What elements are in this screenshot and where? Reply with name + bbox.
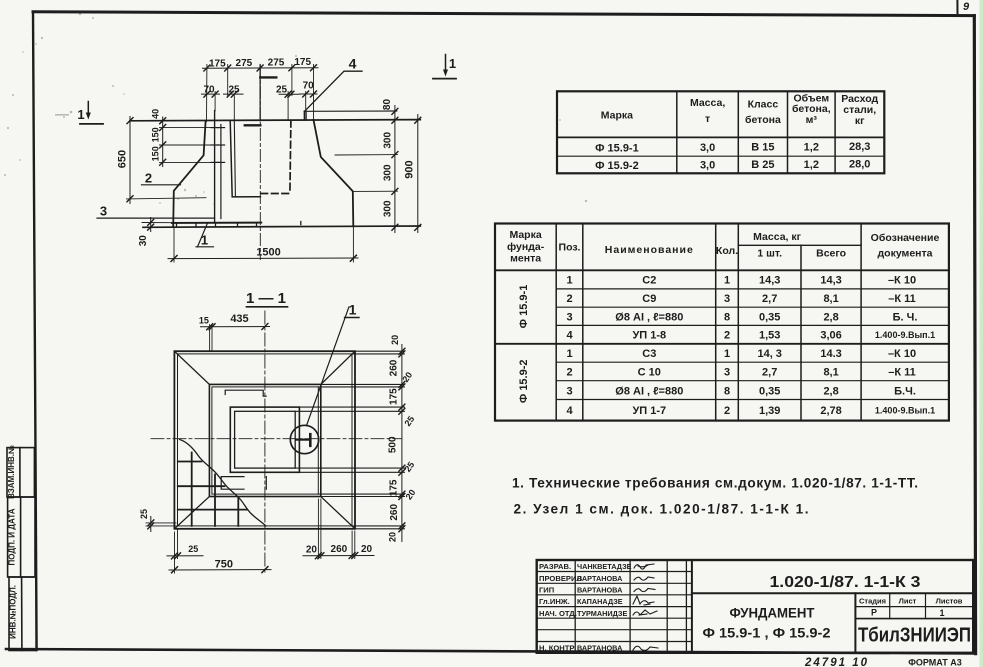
svg-text:8: 8 xyxy=(724,385,730,397)
svg-text:Лист: Лист xyxy=(899,597,917,606)
sidebar stamp box ПОДП. И ДАТА xyxy=(8,497,35,577)
svg-text:3,0: 3,0 xyxy=(700,142,715,154)
mesh C9 band bottom of socket xyxy=(221,477,244,490)
rebar anchor tick marks xyxy=(211,128,225,163)
detail node 1 circle xyxy=(290,425,318,453)
svg-text:Р: Р xyxy=(871,608,877,618)
svg-text:435: 435 xyxy=(230,313,248,325)
svg-text:3,06: 3,06 xyxy=(820,330,841,342)
svg-text:ПРОВЕРИЛ: ПРОВЕРИЛ xyxy=(539,574,582,583)
svg-text:ВЗАМ.ИНВ.№: ВЗАМ.ИНВ.№ xyxy=(7,445,16,499)
svg-text:С2: С2 xyxy=(642,275,656,287)
svg-text:0,35: 0,35 xyxy=(759,311,780,323)
svg-text:1: 1 xyxy=(566,275,572,287)
detail node 1 embedded part symbol xyxy=(297,439,310,441)
svg-text:РАЗРАВ.: РАЗРАВ. xyxy=(539,562,571,571)
title block signature labels xyxy=(539,562,582,653)
svg-text:275: 275 xyxy=(236,58,253,69)
svg-text:150: 150 xyxy=(151,146,161,161)
svg-text:УП 1-8: УП 1-8 xyxy=(632,330,666,342)
svg-text:Масса, кг: Масса, кг xyxy=(753,231,801,243)
svg-text:ТбилЗНИИЭП: ТбилЗНИИЭП xyxy=(858,625,971,647)
plan vertical centerline xyxy=(264,311,266,573)
rebar bars pos.2 in section xyxy=(214,111,216,223)
svg-text:1,39: 1,39 xyxy=(759,405,780,417)
svg-text:Листов: Листов xyxy=(936,597,963,606)
svg-text:70: 70 xyxy=(303,80,315,91)
svg-text:–К 11: –К 11 xyxy=(888,367,916,379)
svg-text:3: 3 xyxy=(566,311,572,323)
mesh grid pos.1 plan xyxy=(178,453,247,526)
svg-text:300: 300 xyxy=(383,200,394,217)
svg-text:С 10: С 10 xyxy=(638,367,661,379)
svg-text:Ф 15.9-1: Ф 15.9-1 xyxy=(518,285,530,329)
svg-text:мента: мента xyxy=(510,253,541,265)
svg-text:25: 25 xyxy=(188,544,198,554)
svg-text:ВАРТАНОВА: ВАРТАНОВА xyxy=(577,574,623,583)
mesh C2 edge inner square xyxy=(178,354,353,526)
svg-text:ПОДП. И ДАТА: ПОДП. И ДАТА xyxy=(7,508,16,565)
mesh C9 edge inner square xyxy=(212,387,318,494)
svg-text:2,8: 2,8 xyxy=(823,311,838,323)
svg-text:Кол.: Кол. xyxy=(716,245,738,257)
mesh C9 band top of socket xyxy=(225,390,266,396)
svg-text:1.400-9.Вып.1: 1.400-9.Вып.1 xyxy=(875,406,935,416)
svg-text:1.020-1/87. 1-1-К 3: 1.020-1/87. 1-1-К 3 xyxy=(770,574,921,591)
svg-text:1,2: 1,2 xyxy=(804,142,819,154)
svg-text:1,2: 1,2 xyxy=(804,159,819,171)
svg-text:260: 260 xyxy=(389,359,400,376)
svg-text:2: 2 xyxy=(566,367,572,379)
svg-text:В 15: В 15 xyxy=(751,142,774,154)
dim 25 left xyxy=(224,93,244,95)
svg-text:25: 25 xyxy=(139,509,149,519)
svg-text:С9: С9 xyxy=(642,293,656,305)
svg-text:8: 8 xyxy=(724,311,730,323)
svg-text:1: 1 xyxy=(724,348,730,360)
svg-text:24791 10: 24791 10 xyxy=(804,657,869,667)
embedded item УП top stub (pos.4) xyxy=(304,110,396,112)
svg-text:КАПАНАДЗЕ: КАПАНАДЗЕ xyxy=(577,597,623,606)
outer base square plan xyxy=(174,351,355,529)
table 2 rows group 1 xyxy=(566,275,917,342)
svg-text:документа: документа xyxy=(878,248,933,260)
leader node 1 xyxy=(307,307,349,426)
svg-text:Ф 15.9-2: Ф 15.9-2 xyxy=(518,359,530,403)
svg-text:кг: кг xyxy=(855,115,865,127)
svg-text:175: 175 xyxy=(389,388,400,405)
section mark 1 left xyxy=(77,102,103,124)
svg-text:3: 3 xyxy=(724,367,730,379)
svg-text:Стадия: Стадия xyxy=(859,597,886,606)
sidebar stamp box ИНВ.№ПОДЛ. xyxy=(9,577,36,651)
svg-text:175: 175 xyxy=(294,57,311,68)
svg-text:фунда-: фунда- xyxy=(507,241,545,253)
svg-text:40: 40 xyxy=(151,109,161,119)
svg-text:Ф 15.9-1: Ф 15.9-1 xyxy=(595,143,639,155)
svg-text:1: 1 xyxy=(566,348,572,360)
svg-text:Поз.: Поз. xyxy=(559,242,581,254)
bottom mesh pos.1 in section xyxy=(172,222,261,224)
svg-text:260: 260 xyxy=(331,544,348,555)
title block grid xyxy=(537,560,974,653)
svg-text:2: 2 xyxy=(566,293,572,305)
svg-text:1,53: 1,53 xyxy=(759,330,780,342)
svg-text:ВАРТАНОВА: ВАРТАНОВА xyxy=(577,585,623,594)
svg-text:1: 1 xyxy=(724,275,730,287)
section mark 1 right xyxy=(433,55,456,79)
svg-text:ТУРМАНИДЗЕ: ТУРМАНИДЗЕ xyxy=(577,609,627,618)
svg-text:4: 4 xyxy=(566,405,573,417)
svg-text:1. Технические требования см.д: 1. Технические требования см.докум. 1.02… xyxy=(512,476,918,491)
svg-text:8,1: 8,1 xyxy=(823,293,838,305)
svg-text:14,3: 14,3 xyxy=(820,275,841,287)
extension line at 650 bottom xyxy=(127,198,207,199)
svg-text:20: 20 xyxy=(388,532,398,542)
svg-text:750: 750 xyxy=(215,558,233,570)
right dim chain plan 20/260/20/175/25/500/25/175/20/260/20 xyxy=(401,345,403,542)
svg-text:28,3: 28,3 xyxy=(849,141,870,153)
svg-text:Всего: Всего xyxy=(816,248,846,260)
sheet number box top right xyxy=(956,0,958,15)
svg-text:3,0: 3,0 xyxy=(700,160,715,172)
svg-text:–К 10: –К 10 xyxy=(888,275,916,287)
svg-text:ФОРМАТ А3: ФОРМАТ А3 xyxy=(908,658,962,667)
svg-text:1: 1 xyxy=(449,56,456,71)
svg-text:2,7: 2,7 xyxy=(762,293,777,305)
vertical centerline of elevation xyxy=(259,66,261,260)
svg-text:С3: С3 xyxy=(642,348,656,360)
svg-text:80: 80 xyxy=(382,99,393,111)
svg-text:4: 4 xyxy=(566,330,573,342)
svg-text:1 — 1: 1 — 1 xyxy=(246,290,286,307)
top dim line 175/275/275/175 xyxy=(203,67,319,70)
svg-text:2,7: 2,7 xyxy=(762,367,777,379)
mesh wedge break line (wavy) xyxy=(180,440,266,526)
svg-text:900: 900 xyxy=(404,160,416,178)
svg-text:20: 20 xyxy=(306,545,318,556)
section plane stagger marks xyxy=(260,76,276,78)
svg-text:В 25: В 25 xyxy=(751,159,774,171)
svg-text:т: т xyxy=(705,113,710,125)
svg-text:1.400-9.Вып.1: 1.400-9.Вып.1 xyxy=(875,330,935,340)
svg-text:0,35: 0,35 xyxy=(759,385,780,397)
svg-text:175: 175 xyxy=(209,58,226,69)
scan noise speckles top-left xyxy=(4,13,587,205)
table 1 grid xyxy=(557,91,884,173)
svg-text:14,3: 14,3 xyxy=(759,275,780,287)
corner slope diagonals xyxy=(174,351,355,529)
svg-text:ВАРТАНОВА: ВАРТАНОВА xyxy=(577,644,623,653)
svg-text:4: 4 xyxy=(349,56,357,72)
svg-text:15: 15 xyxy=(199,316,209,326)
svg-text:9: 9 xyxy=(963,1,970,13)
svg-text:НАЧ. ОТД.: НАЧ. ОТД. xyxy=(539,609,577,618)
svg-text:Обозначение: Обозначение xyxy=(871,232,940,244)
socket rim outer square xyxy=(230,407,299,472)
svg-text:1: 1 xyxy=(939,608,944,618)
svg-text:Масса,: Масса, xyxy=(690,97,725,109)
dim 70 right xyxy=(300,93,318,95)
svg-text:Марка: Марка xyxy=(509,229,541,241)
foundation outline elevation xyxy=(173,120,353,227)
svg-text:–К 11: –К 11 xyxy=(888,293,916,305)
svg-text:25: 25 xyxy=(276,85,288,96)
socket left wall (section) xyxy=(230,121,260,197)
svg-text:20: 20 xyxy=(361,544,373,555)
title block names xyxy=(577,562,632,653)
svg-text:28,0: 28,0 xyxy=(849,159,870,171)
top dim 15/435 plan xyxy=(201,326,270,328)
svg-text:Гл.ИНЖ.: Гл.ИНЖ. xyxy=(539,597,570,606)
svg-text:14.3: 14.3 xyxy=(820,348,841,360)
extension lines to rebar xyxy=(160,128,215,163)
sidebar stamp box ВЗАМ.ИНВ.№ xyxy=(7,448,34,497)
dim chain 40/150/150 left xyxy=(162,117,164,167)
foundation base bottom edge xyxy=(143,226,420,227)
leader pos.1 elevation xyxy=(198,223,208,247)
dim 900 overall right xyxy=(417,115,419,233)
svg-text:2: 2 xyxy=(724,405,730,417)
dim 25 left of plan xyxy=(150,517,152,532)
level extension line 300 lower xyxy=(353,190,398,192)
svg-text:Ф 15.9-2: Ф 15.9-2 xyxy=(595,160,639,172)
dim 650 left xyxy=(129,117,131,204)
dim 25 right xyxy=(279,93,299,95)
right extension lines plan xyxy=(295,351,404,529)
table 2 grid xyxy=(495,224,949,421)
svg-text:УП 1-7: УП 1-7 xyxy=(632,405,666,417)
foundation top line (cut plane level) xyxy=(130,120,420,121)
dim 1500 bottom xyxy=(168,257,358,260)
svg-text:3: 3 xyxy=(100,204,107,219)
leader pos.4 xyxy=(305,71,362,111)
title block signatures squiggles xyxy=(633,564,658,651)
svg-text:Ø8 АI , ℓ=880: Ø8 АI , ℓ=880 xyxy=(615,385,683,397)
plan horizontal centerline xyxy=(151,438,401,440)
svg-text:650: 650 xyxy=(117,150,129,168)
svg-text:1: 1 xyxy=(77,107,84,122)
level extension line 300 upper xyxy=(335,154,398,156)
svg-text:Ф 15.9-1 , Ф 15.9-2: Ф 15.9-1 , Ф 15.9-2 xyxy=(703,626,831,641)
svg-text:30: 30 xyxy=(138,235,149,247)
green scan edge strip right xyxy=(980,0,983,667)
svg-text:Класс: Класс xyxy=(748,99,779,111)
svg-text:20: 20 xyxy=(390,335,400,345)
svg-text:3: 3 xyxy=(724,293,730,305)
svg-text:2: 2 xyxy=(724,330,730,342)
svg-text:14, 3: 14, 3 xyxy=(757,348,781,360)
svg-text:бетона: бетона xyxy=(745,114,781,126)
svg-text:260: 260 xyxy=(389,504,400,521)
svg-text:300: 300 xyxy=(383,132,394,149)
svg-text:25: 25 xyxy=(228,84,240,95)
svg-text:3: 3 xyxy=(566,385,572,397)
top dim extension verticals xyxy=(207,65,314,122)
svg-text:1: 1 xyxy=(349,302,357,318)
dim 750 plan xyxy=(169,569,271,571)
svg-text:2: 2 xyxy=(145,171,152,186)
svg-text:300: 300 xyxy=(383,164,394,181)
svg-text:70: 70 xyxy=(203,85,215,96)
leader pos.2 xyxy=(142,184,181,186)
svg-text:2,78: 2,78 xyxy=(820,405,841,417)
dim 30 bottom left xyxy=(150,218,152,232)
svg-text:275: 275 xyxy=(268,57,285,68)
svg-text:ЧАНКВЕТАДЗЕ: ЧАНКВЕТАДЗЕ xyxy=(577,562,632,571)
dim chain 80/300/300/300 right xyxy=(394,106,396,233)
svg-text:ИНВ.№ПОДЛ.: ИНВ.№ПОДЛ. xyxy=(9,585,18,639)
svg-text:Н. КОНТР: Н. КОНТР xyxy=(539,644,574,653)
socket rim inner square xyxy=(235,411,296,468)
bottom dim 20/260/20 plan xyxy=(303,555,374,557)
pedestal square plan xyxy=(209,384,320,496)
svg-text:500: 500 xyxy=(388,436,399,453)
svg-text:Б.Ч.: Б.Ч. xyxy=(894,385,916,397)
svg-text:1: 1 xyxy=(201,233,208,248)
svg-text:2,8: 2,8 xyxy=(823,385,838,397)
socket right wall (hidden, dashed) xyxy=(290,120,291,193)
table 2 rows group 2 xyxy=(566,348,916,417)
svg-text:150: 150 xyxy=(150,127,160,142)
svg-text:м³: м³ xyxy=(806,114,818,126)
svg-text:Наименование: Наименование xyxy=(605,244,694,256)
svg-text:1500: 1500 xyxy=(256,246,280,258)
leader pos.3 xyxy=(97,217,214,219)
dim 70 left xyxy=(202,93,220,95)
svg-text:Марка: Марка xyxy=(601,110,633,122)
svg-text:–К 10: –К 10 xyxy=(888,348,916,360)
svg-text:ФУНДАМЕНТ: ФУНДАМЕНТ xyxy=(730,606,816,621)
svg-text:Ø8 АI , ℓ=880: Ø8 АI , ℓ=880 xyxy=(615,311,683,323)
svg-text:Б. Ч.: Б. Ч. xyxy=(893,311,918,323)
svg-text:8,1: 8,1 xyxy=(823,367,838,379)
svg-text:ГИП: ГИП xyxy=(539,585,554,594)
svg-text:1 шт.: 1 шт. xyxy=(757,248,782,260)
